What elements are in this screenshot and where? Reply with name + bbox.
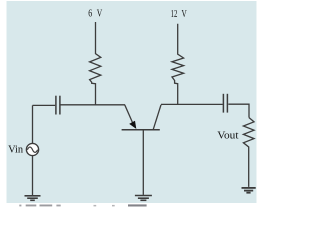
svg-text:12: 12: [171, 9, 178, 20]
svg-text:V: V: [182, 9, 188, 20]
svg-text:6: 6: [88, 8, 92, 19]
svg-text:Vout: Vout: [217, 129, 238, 141]
svg-text:V: V: [97, 8, 103, 19]
svg-text:Vin: Vin: [8, 144, 23, 155]
